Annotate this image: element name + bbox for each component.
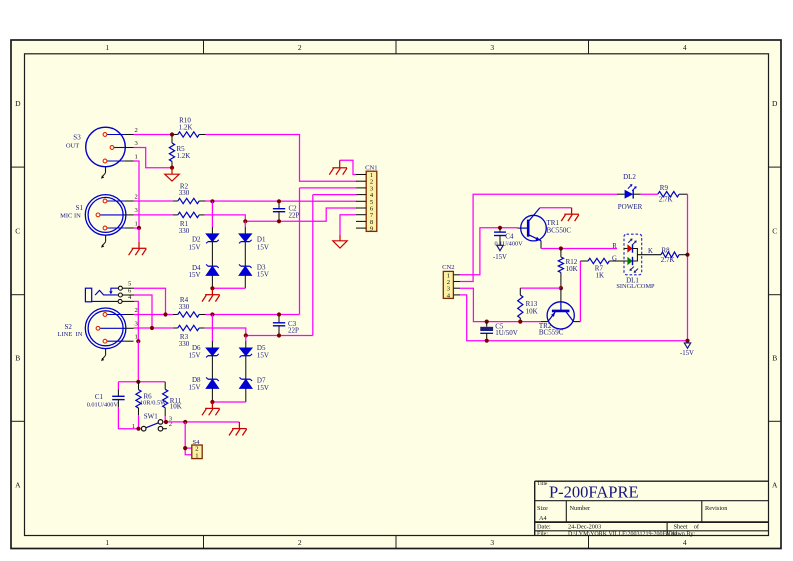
transistor TR2 BC559C [539, 288, 581, 336]
chassis ground under D8 [202, 402, 220, 415]
junction D1 column top [243, 219, 247, 223]
svg-text:MIC IN: MIC IN [60, 212, 81, 219]
resistor R10 [172, 117, 206, 138]
junction R11 bottom [164, 420, 168, 424]
svg-text:15V: 15V [188, 351, 200, 359]
svg-text:B: B [15, 353, 20, 362]
wire S1 pin3 to R1 [134, 214, 173, 216]
svg-text:SW1: SW1 [144, 412, 159, 420]
junction C3 top [277, 312, 281, 316]
wire node to D6 column [211, 315, 213, 342]
svg-text:15V: 15V [188, 383, 200, 391]
svg-text:15V: 15V [188, 271, 200, 279]
zener diode D8 [188, 376, 218, 391]
svg-text:LINE IN: LINE IN [58, 331, 83, 338]
svg-text:S3: S3 [73, 134, 81, 142]
ground (earth triangle) under CN1 pin7 [333, 235, 347, 248]
junction jack pin4 / S2 pin1 [136, 339, 140, 343]
svg-text:15V: 15V [257, 243, 269, 251]
svg-text:Sheet of: Sheet of [674, 524, 700, 531]
title block [535, 481, 769, 535]
power port -15V right [680, 343, 694, 357]
wire jack pin5 to R4 row [134, 288, 166, 314]
rail R9/R8 down to -15V [687, 194, 689, 341]
junction S1 pin1 [137, 226, 141, 230]
resistor R7 [580, 258, 624, 279]
svg-text:D:\LYM\YORK VILLE\20031219-200: D:\LYM\YORK VILLE\20031219-200FA.dd [568, 532, 677, 538]
junction SW1 pin1 node [136, 427, 140, 431]
chassis ground right of SW1 [229, 422, 247, 436]
wire node to D5 column [245, 336, 247, 342]
wire R1 to C2 bottom row then CN1 pin6 [205, 208, 357, 221]
wire S2 pin2 to R4 [134, 314, 173, 316]
wire node to D1 column [244, 221, 246, 227]
svg-text:15V: 15V [257, 384, 269, 392]
svg-text:330: 330 [179, 189, 190, 197]
chassis ground under S1 [129, 242, 147, 255]
svg-text:File:: File: [537, 532, 548, 538]
wire R3 to C3 bottom row [205, 328, 313, 336]
capacitor C2 [273, 201, 300, 221]
wire R10 to CN1 pin2 [206, 135, 357, 182]
svg-text:0.01U/400V: 0.01U/400V [87, 401, 119, 408]
connector S1 MIC IN (XLR) [60, 193, 138, 247]
top rail C1/R6/R11 [118, 381, 165, 383]
svg-text:DL2: DL2 [623, 173, 636, 181]
svg-text:1: 1 [105, 538, 109, 547]
svg-text:C: C [15, 226, 20, 235]
svg-text:22P: 22P [289, 212, 300, 220]
svg-text:D: D [15, 99, 21, 108]
svg-text:Number: Number [570, 505, 592, 512]
svg-text:10K: 10K [526, 307, 538, 315]
resistor R13 [518, 288, 538, 322]
svg-text:BC559C: BC559C [539, 328, 564, 336]
capacitor C4 [494, 226, 523, 248]
svg-text:3: 3 [490, 538, 494, 547]
junction rail / -15V [685, 339, 689, 343]
wire DL2 to R9 [641, 193, 658, 195]
junction jack pin6 / R3 row [150, 326, 154, 330]
svg-text:Revision: Revision [705, 505, 728, 512]
svg-text:POWER: POWER [618, 203, 643, 211]
svg-text:2: 2 [135, 193, 138, 200]
svg-text:1.2K: 1.2K [177, 152, 191, 160]
wire CN2 pin2 to DL2 row [460, 194, 617, 281]
svg-text:Date:: Date: [537, 524, 551, 531]
junction R13 bottom [518, 320, 522, 324]
svg-text:10R/0.5W: 10R/0.5W [140, 400, 166, 407]
svg-text:A4: A4 [539, 515, 548, 522]
svg-text:-15V: -15V [493, 254, 507, 261]
resistor R9 [658, 184, 688, 203]
resistor R11 [163, 382, 182, 422]
svg-text:0.1U/400V: 0.1U/400V [495, 240, 524, 247]
wire R2 to CN1 pin5 [206, 200, 357, 202]
svg-text:P-200FAPRE: P-200FAPRE [549, 483, 639, 502]
svg-text:1: 1 [135, 220, 138, 227]
wire S1 pin2 to CN1 pin5 [134, 200, 173, 202]
dual LED DL1 SINGL/COMP [612, 234, 661, 290]
resistor R6 [136, 382, 166, 429]
zener diode D2 [188, 234, 218, 252]
svg-text:SINGL/COMP: SINGL/COMP [616, 283, 655, 290]
svg-text:S1: S1 [76, 204, 84, 212]
svg-text:R: R [612, 243, 617, 250]
svg-text:-15V: -15V [680, 350, 694, 357]
resistor R4 [173, 296, 206, 317]
junction S4 branch [183, 420, 187, 424]
svg-text:S2: S2 [64, 323, 72, 331]
wire CN1 pin4 down to C3 row [313, 194, 357, 196]
svg-text:C1: C1 [95, 393, 104, 401]
wire S2 pin3 to R3 [134, 327, 173, 329]
wire CN2 pin1 to TR1 base row [460, 228, 518, 275]
resistor R12 [558, 249, 577, 289]
capacitor C3 [273, 315, 299, 336]
wire CN2 pin3 to TR2 emitter row [460, 288, 541, 321]
capacitor C5 (electrolytic) [480, 320, 517, 343]
resistor R3 [173, 325, 205, 348]
wire CN2 pin4 to -15V rail [460, 295, 688, 341]
wire tie D-columns bottoms [212, 287, 245, 289]
svg-text:OUT: OUT [66, 142, 79, 149]
connector S3 OUT (XLR) [66, 127, 139, 179]
svg-text:4: 4 [683, 538, 687, 547]
switch SW1 [132, 412, 173, 431]
svg-text:15V: 15V [257, 351, 269, 359]
junction jack pin5 / R4 row [163, 312, 167, 316]
junction C2 top [277, 199, 281, 203]
connector CN2 [442, 264, 460, 300]
junction C3 bottom [277, 333, 281, 337]
junction D6 column top [210, 312, 214, 316]
phone jack connector [85, 281, 134, 304]
junction D-columns bottom tie [210, 286, 214, 290]
svg-text:2: 2 [298, 43, 302, 52]
wire CN1 pin7 to earth ground [340, 215, 356, 235]
zener diode D3 [239, 264, 269, 279]
svg-text:1: 1 [105, 43, 109, 52]
svg-text:C4: C4 [505, 232, 514, 240]
wire R13 top to node [520, 287, 561, 289]
svg-text:B: B [772, 353, 777, 362]
resistor R2 [173, 182, 206, 203]
svg-text:4: 4 [683, 43, 687, 52]
wire S3 pin1 down to S1 pin1 [134, 161, 140, 228]
svg-text:R8: R8 [662, 246, 671, 254]
svg-text:BC550C: BC550C [547, 227, 572, 235]
capacitor C1 [87, 382, 139, 429]
wire S1 pin1 to chassis ground [138, 228, 140, 242]
resistor R1 [173, 212, 205, 235]
LED DL2 POWER [617, 173, 643, 211]
svg-text:15V: 15V [188, 243, 200, 251]
wire TR1 collector to chassis ground [540, 207, 572, 209]
zener diode D6 [188, 344, 218, 360]
junction lower D-columns tie [210, 400, 214, 404]
svg-text:1K: 1K [596, 272, 605, 280]
wire down to S4 [185, 422, 192, 455]
connector S2 LINE IN (XLR) [58, 307, 139, 361]
svg-text:D: D [772, 99, 778, 108]
svg-text:1: 1 [135, 153, 138, 160]
svg-text:15V: 15V [257, 271, 269, 279]
svg-text:24-Dec-2003: 24-Dec-2003 [568, 524, 601, 531]
wire jack pin6 to R3 row [134, 295, 152, 328]
junction node R10/R5 [170, 132, 174, 136]
svg-text:G: G [612, 255, 617, 262]
svg-text:10K: 10K [170, 403, 182, 411]
svg-text:330: 330 [179, 227, 190, 235]
svg-text:10K: 10K [566, 265, 578, 273]
wire TR2 collector to R7 [579, 261, 581, 322]
svg-text:A: A [15, 481, 21, 490]
chassis ground under D4 [202, 288, 220, 301]
zener diode D5 [239, 344, 269, 360]
connector S4 [192, 439, 202, 459]
junction C1/R6 rail [136, 380, 140, 384]
svg-text:2: 2 [135, 307, 138, 314]
svg-text:C: C [772, 226, 777, 235]
svg-text:2.7K: 2.7K [659, 196, 673, 204]
wire S3 pin2 to node [134, 134, 173, 136]
svg-text:1U/50V: 1U/50V [495, 329, 518, 337]
junction C2 bottom [277, 219, 281, 223]
junction D2 column top [210, 199, 214, 203]
junction S4 pin2 [183, 446, 187, 450]
resistor R8 [661, 246, 688, 264]
zener diode D1 [239, 234, 269, 252]
svg-text:3: 3 [490, 43, 494, 52]
svg-text:K: K [648, 248, 653, 255]
svg-text:A: A [772, 481, 778, 490]
svg-text:1: 1 [132, 423, 135, 430]
power port -15V under C4 [493, 245, 507, 261]
svg-text:CN2: CN2 [442, 264, 454, 271]
svg-text:Size: Size [537, 505, 548, 512]
svg-text:Title: Title [537, 481, 548, 487]
svg-text:2.7K: 2.7K [661, 256, 675, 264]
ground (earth triangle) under R5 [165, 168, 179, 181]
junction D5 column top [244, 333, 248, 337]
wire jack pin4 to S2 pin1 row [134, 301, 138, 341]
resistor R5 [169, 135, 190, 168]
wire S3 pin3 to R5 bottom [134, 148, 173, 168]
svg-text:CN1: CN1 [365, 165, 377, 172]
svg-text:2: 2 [298, 538, 302, 547]
junction TR2 base node [559, 286, 563, 290]
wire TR1 emitter row to DL1 R [541, 248, 617, 250]
wire tie lower D-columns [212, 401, 245, 403]
transistor TR1 BC550C [518, 208, 572, 249]
junction R12 top [559, 246, 563, 250]
svg-text:Drawn By:: Drawn By: [669, 532, 696, 538]
svg-text:R9: R9 [660, 184, 669, 192]
connector CN1 [356, 165, 378, 233]
wire CN1 pin1 to chassis ground [340, 160, 356, 174]
svg-text:1.2K: 1.2K [179, 123, 193, 131]
chassis ground above CN1 [329, 160, 347, 174]
junction R8 / rail [685, 253, 689, 257]
svg-text:330: 330 [179, 340, 190, 348]
svg-text:2: 2 [135, 127, 138, 134]
wire node to D2 column [211, 201, 213, 227]
wire S2 pin1 down to C1/R6 rail [137, 341, 139, 382]
zener diode D7 [239, 376, 269, 391]
chassis ground at TR1 [561, 208, 579, 221]
svg-text:22P: 22P [288, 327, 299, 335]
svg-text:1: 1 [195, 452, 198, 459]
wire R4 row to CN1 pin3 riser [206, 314, 300, 316]
svg-text:330: 330 [179, 303, 190, 311]
wire CN1 pin3 down to R4 row [300, 187, 357, 189]
wire SW1 pin3 row [163, 421, 240, 423]
junction node R5 bottom [170, 166, 174, 170]
zener diode D4 [188, 264, 218, 279]
